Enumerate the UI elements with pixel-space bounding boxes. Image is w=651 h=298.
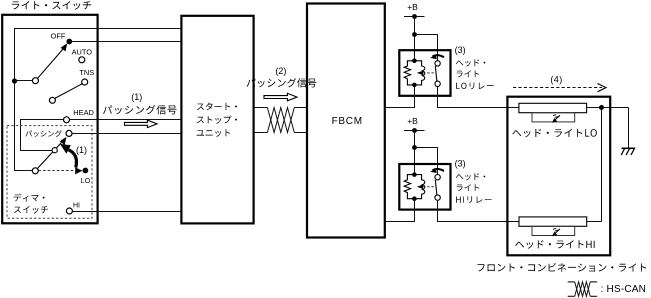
headlight LO bulb base [532,113,575,122]
power +B bar (LO) [404,16,425,18]
legend twisted pair symbol [568,281,575,283]
relay switch contacts (HI) [435,175,440,180]
node junction (LO) [412,32,417,37]
light switch title [12,1,91,10]
OFF contact [66,39,72,45]
wire coil to FBCM (HI) [385,199,415,222]
wire +B down to coil (LO) [414,17,416,61]
wire junction to switch (HI) [415,148,438,175]
front combination light box [507,97,610,256]
wire HEAD output [69,119,181,121]
block arrow passing signal 2 [264,93,297,101]
coil arrow (HI) [417,185,423,189]
wire passing output [72,133,181,135]
relay box LO [399,50,450,96]
svg-text:(3): (3) [455,45,466,55]
twisted pair HS-CAN wires [254,107,268,109]
node junction (HI) [412,145,417,150]
curved arrow (1) motion [69,150,77,168]
svg-text:LO: LO [81,178,91,185]
wire switch to HI lamp [438,200,520,221]
svg-text:HI: HI [73,203,80,210]
rotary wiper pivot [32,78,38,84]
dashed rest position line to LO [38,170,75,172]
relay coil node top (LO) [412,59,417,64]
node common tap [12,78,17,83]
label front combination light [477,263,646,272]
resistor (HI relay) [404,175,414,199]
dimmer lever [37,140,64,169]
svg-text:OFF: OFF [51,32,66,41]
wire +B down to coil (HI) [414,131,416,175]
dimmer common contact [32,168,38,174]
rotary lever to OFF [38,47,65,78]
relay coil node bottom (LO) [412,83,417,88]
label dimmer switch line2 [14,206,48,214]
coil arrow (LO) [417,71,423,75]
TNS contact [82,79,88,85]
label passing (switch) [26,130,62,137]
svg-text:TNS: TNS [79,68,94,77]
HEAD contact [64,117,70,123]
label start-stop unit [197,103,237,111]
svg-text:AUTO: AUTO [72,48,93,57]
ground [622,147,636,149]
passing contact [66,130,72,136]
relay switch contacts (LO) [435,61,440,66]
svg-text:(2): (2) [275,66,286,76]
relay coil node bottom (HI) [412,196,417,201]
relay coil node top (HI) [412,172,417,177]
switch motion arc (HI) [433,169,444,171]
dimmer pivot [52,148,57,153]
wire LO lamp to ground node [587,107,629,109]
relay box HI [399,164,450,210]
label headlight HI [515,240,594,249]
svg-text:+B: +B [407,116,418,126]
dashed actuator link (HI) [423,186,434,188]
wire HI output [72,211,181,213]
svg-text:(1): (1) [76,145,87,155]
node ground junction [599,105,604,110]
wire ground drop [628,108,630,149]
FBCM box [307,4,385,238]
wire HEAD to dimmer pivot [21,120,64,151]
svg-text:FBCM: FBCM [332,116,363,127]
svg-text:(4): (4) [550,75,562,85]
wire common bus to start-stop unit [15,29,182,171]
switch motion arc (LO) [433,55,444,57]
wire HI lamp to ground vertical [587,221,602,223]
wire junction to switch (LO) [415,35,438,61]
svg-text:(1): (1) [131,92,142,102]
headlight LO bulb body [519,103,587,112]
AUTO contact [79,57,85,63]
wire shared ground vertical [601,108,603,222]
resistor (LO relay) [404,61,414,85]
light switch box [2,15,97,224]
wire OFF output [69,41,181,43]
svg-text:(3): (3) [455,159,466,169]
wire coil to FBCM (LO) [385,85,415,108]
headlight HI bulb base [532,226,575,235]
dashed actuator link (LO) [423,72,434,74]
start-stop unit box [181,16,253,224]
HI contact [66,208,72,214]
relay switch lever (HI) [435,180,437,195]
headlight HI bulb body [519,217,587,226]
svg-text:HEAD: HEAD [73,108,94,117]
label headlight LO relay [456,59,485,66]
dimmer switch dashed box [7,126,92,219]
dashed arrow (4) [513,87,602,89]
relay switch lever (LO) [435,66,437,81]
power +B bar (HI) [404,130,425,132]
label headlight HI relay [456,173,485,180]
label dimmer switch line1 [14,194,45,202]
TNS wiper pivot [49,97,55,103]
block arrow passing signal 1 [125,120,158,128]
wire switch to LO lamp [438,87,519,108]
TNS wiper lever [55,84,83,99]
label headlight LO [512,129,597,138]
bulb arrow LO [555,115,560,120]
bulb arrow HI [555,229,560,234]
svg-text:+B: +B [407,2,418,12]
LO contact [83,168,89,174]
relay coil (HI) [414,175,424,199]
relay coil (LO) [414,61,424,85]
svg-text:: HS-CAN: : HS-CAN [601,284,647,295]
wire common tap to wiper [15,80,33,82]
